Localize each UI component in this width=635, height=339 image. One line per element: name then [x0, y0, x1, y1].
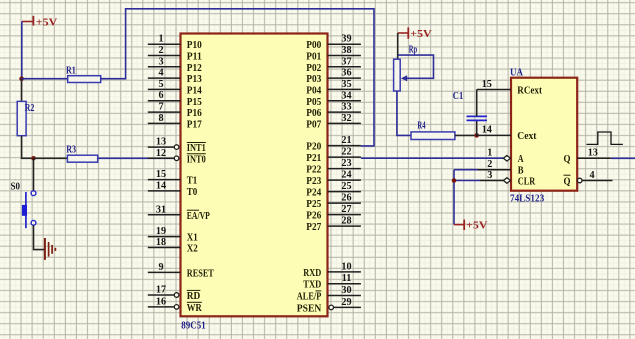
ground	[45, 238, 56, 260]
svg-text:P27: P27	[306, 221, 322, 233]
svg-text:P26: P26	[306, 210, 322, 222]
pin 9 RESET	[148, 262, 215, 280]
pin 22 P21	[306, 147, 361, 165]
capacitor C1	[453, 90, 487, 137]
svg-text:2: 2	[158, 45, 163, 56]
pulse waveform symbol	[587, 132, 623, 144]
svg-text:37: 37	[341, 56, 351, 67]
wire node B to R3	[34, 157, 68, 159]
pin 30 ALE/P	[297, 285, 361, 303]
pin 25 P24	[306, 181, 361, 199]
svg-text:+5V: +5V	[36, 16, 58, 28]
pin 3 P12	[148, 56, 202, 74]
pin 36 P03	[306, 68, 361, 86]
pin 11 TXD	[303, 273, 361, 291]
svg-text:P13: P13	[187, 73, 203, 85]
svg-text:11: 11	[342, 273, 352, 284]
svg-text:P12: P12	[187, 62, 202, 74]
pin 3 CLR	[454, 170, 535, 187]
svg-text:31: 31	[156, 204, 166, 215]
svg-text:P01: P01	[306, 51, 321, 63]
pin 37 P02	[306, 56, 361, 74]
IC U? 89C51 body	[181, 34, 328, 317]
wire S0 to ground	[34, 225, 45, 249]
power +5V bottom (74LS123)	[454, 219, 488, 231]
svg-text:INT1: INT1	[187, 142, 206, 154]
pin 31 EA/VP	[148, 204, 210, 222]
potentiometer Rp	[394, 44, 434, 91]
svg-text:P03: P03	[306, 73, 322, 85]
svg-text:P17: P17	[187, 118, 203, 130]
svg-text:P22: P22	[306, 164, 321, 176]
wire to node B	[21, 157, 34, 159]
svg-text:RD: RD	[187, 290, 201, 302]
svg-text:+5V: +5V	[466, 219, 488, 231]
svg-text:8: 8	[158, 113, 163, 124]
svg-text:4: 4	[589, 170, 594, 181]
svg-text:32: 32	[341, 113, 351, 124]
svg-text:P21: P21	[306, 152, 321, 164]
svg-text:7: 7	[158, 102, 163, 113]
svg-text:Q: Q	[564, 175, 571, 187]
svg-text:R4: R4	[417, 119, 426, 131]
pin 14 T0	[148, 180, 198, 198]
svg-text:34: 34	[341, 90, 351, 101]
wire P21 to A input	[361, 157, 504, 159]
pin 28 P27	[306, 216, 361, 234]
pin 2 P11	[148, 45, 202, 63]
svg-text:RXD: RXD	[303, 267, 321, 279]
svg-text:24: 24	[341, 170, 351, 181]
resistor R1	[66, 64, 101, 82]
svg-text:29: 29	[341, 297, 351, 308]
svg-text:P02: P02	[306, 62, 321, 74]
pin 1 P10	[148, 34, 202, 52]
svg-text:17: 17	[156, 285, 166, 296]
IC UA 74LS123 body	[511, 78, 577, 191]
wire R1 to P20 (pin 21) via top	[101, 9, 374, 146]
svg-text:9: 9	[158, 262, 163, 273]
svg-text:16: 16	[156, 296, 166, 307]
svg-text:15: 15	[156, 169, 166, 180]
svg-text:13: 13	[588, 148, 598, 159]
svg-text:P07: P07	[306, 118, 322, 130]
pin 24 P23	[306, 170, 361, 188]
pin 27 P26	[306, 204, 361, 222]
pin 18 X2	[148, 237, 198, 255]
resistor R2	[17, 101, 34, 135]
svg-text:R2: R2	[25, 102, 35, 114]
svg-text:13: 13	[156, 137, 166, 148]
svg-text:38: 38	[341, 45, 351, 56]
pin 13 INT1	[148, 137, 206, 155]
svg-text:23: 23	[341, 158, 351, 169]
svg-text:P00: P00	[306, 39, 321, 51]
wire Rp to R4	[397, 91, 411, 135]
svg-text:EA/VP: EA/VP	[187, 210, 210, 222]
wire R2 to node B	[21, 136, 23, 159]
wire node A to R1	[21, 78, 68, 80]
pin 38 P01	[306, 45, 361, 63]
pin 26 P25	[306, 193, 361, 211]
pin 17 RD	[148, 285, 201, 303]
svg-text:36: 36	[341, 68, 351, 79]
svg-text:10: 10	[341, 261, 351, 272]
svg-text:+5V: +5V	[410, 28, 432, 40]
svg-text:3: 3	[158, 56, 163, 67]
pin 35 P04	[306, 79, 361, 97]
svg-text:39: 39	[341, 34, 351, 45]
svg-text:P11: P11	[187, 51, 202, 63]
svg-text:P10: P10	[187, 39, 202, 51]
svg-text:TXD: TXD	[303, 279, 321, 291]
pin 19 X1	[148, 226, 198, 244]
svg-text:P15: P15	[187, 96, 202, 108]
svg-text:30: 30	[341, 285, 351, 296]
pin 32 P07	[306, 113, 361, 130]
power +5V top-left	[22, 16, 58, 28]
svg-text:R1: R1	[66, 64, 76, 76]
pin 21 P20	[306, 135, 361, 153]
svg-text:6: 6	[158, 90, 163, 101]
svg-text:PSEN: PSEN	[297, 302, 322, 314]
pin 4 Q-bar	[564, 170, 613, 188]
resistor R4	[411, 119, 455, 139]
pin 10 RXD	[303, 261, 361, 279]
svg-text:P05: P05	[306, 96, 321, 108]
svg-text:R3: R3	[66, 144, 76, 156]
svg-text:15: 15	[482, 79, 492, 90]
svg-text:RCext: RCext	[517, 84, 542, 96]
svg-text:Rp: Rp	[409, 44, 417, 56]
pin 1 A	[487, 148, 523, 166]
switch S0	[11, 181, 36, 229]
svg-text:P24: P24	[306, 187, 322, 199]
wire R4 to node C	[455, 134, 477, 136]
svg-text:35: 35	[341, 79, 351, 90]
svg-text:C1: C1	[453, 90, 463, 102]
wire B and CLR to +5V	[453, 170, 455, 225]
node C junction	[474, 133, 479, 138]
svg-text:2: 2	[487, 159, 492, 170]
svg-text:4: 4	[158, 68, 163, 79]
svg-text:89C51: 89C51	[181, 319, 205, 331]
svg-text:12: 12	[156, 148, 166, 159]
svg-text:33: 33	[341, 102, 351, 113]
svg-text:74LS123: 74LS123	[510, 193, 545, 205]
svg-text:CLR: CLR	[518, 175, 536, 187]
pin 7 P16	[148, 102, 203, 120]
svg-text:T1: T1	[187, 175, 198, 187]
svg-text:P23: P23	[306, 175, 322, 187]
pin 8 P17	[148, 113, 203, 130]
svg-text:1: 1	[158, 34, 163, 45]
wire R3 to INT0	[98, 157, 175, 159]
pin 34 P05	[306, 90, 361, 108]
wire node B to switch S0	[33, 158, 35, 191]
svg-text:3: 3	[487, 170, 492, 181]
svg-text:28: 28	[341, 216, 351, 227]
node A junction	[19, 76, 24, 81]
svg-text:5: 5	[158, 79, 163, 90]
svg-text:A: A	[518, 153, 524, 165]
node B junction	[31, 156, 36, 161]
pin 16 WR	[148, 296, 202, 314]
pin 5 P14	[148, 79, 203, 97]
svg-text:14: 14	[482, 125, 492, 136]
wire +5V to node A	[21, 22, 23, 80]
pin 13 Q	[564, 148, 635, 166]
svg-text:ALE/P: ALE/P	[297, 291, 322, 303]
svg-text:Q: Q	[564, 153, 571, 165]
svg-text:25: 25	[341, 181, 351, 192]
svg-text:P25: P25	[306, 198, 321, 210]
pin 14 Cext	[477, 125, 537, 143]
svg-text:26: 26	[341, 193, 351, 204]
svg-text:T0: T0	[187, 186, 198, 198]
node D junction	[452, 178, 457, 183]
svg-text:27: 27	[341, 204, 351, 215]
pin 12 INT0	[148, 148, 206, 166]
pin 4 P13	[148, 68, 203, 86]
svg-text:RESET: RESET	[187, 267, 215, 279]
svg-text:1: 1	[487, 148, 492, 159]
svg-text:P14: P14	[187, 84, 203, 96]
svg-text:P20: P20	[306, 141, 321, 153]
wire node A to R2	[21, 79, 23, 102]
svg-text:X2: X2	[187, 243, 198, 255]
svg-text:S0: S0	[11, 181, 21, 193]
power +5V top-middle (Rp)	[398, 27, 432, 39]
svg-text:P06: P06	[306, 107, 322, 119]
svg-text:14: 14	[156, 180, 166, 191]
svg-text:WR: WR	[187, 302, 202, 314]
svg-text:19: 19	[156, 226, 166, 237]
svg-text:UA: UA	[510, 66, 523, 78]
svg-text:21: 21	[341, 135, 351, 146]
resistor R3	[66, 144, 98, 163]
svg-text:Cext: Cext	[517, 130, 537, 142]
pin 15 RCext	[477, 79, 543, 96]
pin 2 B	[454, 159, 524, 176]
svg-text:18: 18	[156, 237, 166, 248]
svg-text:P04: P04	[306, 84, 322, 96]
pin 39 P00	[306, 34, 361, 52]
svg-text:22: 22	[341, 147, 351, 158]
svg-text:P16: P16	[187, 107, 203, 119]
pin 29 PSEN	[297, 297, 361, 315]
pin 15 T1	[148, 169, 198, 187]
pin 23 P22	[306, 158, 361, 176]
wire +5V to Rp	[397, 33, 399, 59]
pin 6 P15	[148, 90, 202, 108]
svg-text:INT0: INT0	[187, 153, 206, 165]
pin 33 P06	[306, 102, 361, 120]
